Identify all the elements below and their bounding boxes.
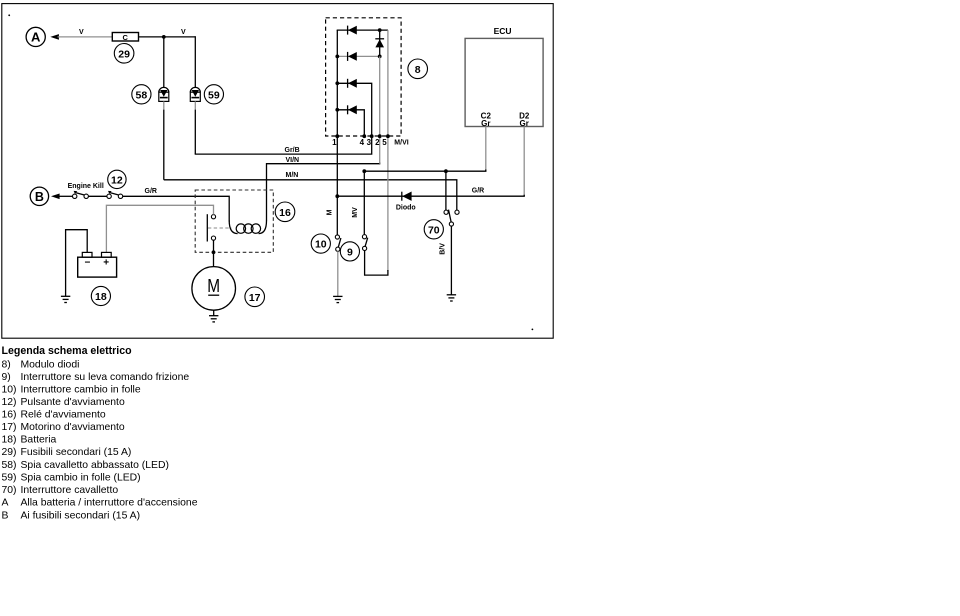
svg-text:V: V	[79, 29, 84, 36]
svg-text:B/V: B/V	[440, 243, 447, 255]
svg-text:V: V	[181, 29, 186, 36]
diode D2	[348, 52, 357, 61]
wire V: fuse to corner	[139, 36, 196, 38]
junction pin4	[362, 169, 366, 173]
wire relay output to motor	[213, 240, 215, 266]
svg-text:Modulo diodi: Modulo diodi	[21, 360, 80, 371]
switch 12 (pulsante avviamento)	[107, 191, 123, 199]
svg-text:29: 29	[118, 48, 130, 60]
relay 16: dashed box	[195, 190, 273, 252]
ref circle 70	[424, 220, 443, 239]
svg-text:Interruttore cambio in folle: Interruttore cambio in folle	[21, 385, 141, 396]
svg-text:Fusibili secondari (15 A): Fusibili secondari (15 A)	[21, 447, 132, 458]
ref circle 12	[108, 170, 126, 188]
svg-text:3: 3	[367, 138, 372, 147]
wire: module pin4 to ECU C2	[364, 170, 486, 172]
svg-text:Interruttore su leva comando f: Interruttore su leva comando frizione	[21, 372, 190, 383]
ECU box	[465, 38, 543, 126]
svg-text:+: +	[103, 258, 109, 269]
ref circle 29	[114, 44, 134, 64]
svg-text:Spia cambio in folle (LED): Spia cambio in folle (LED)	[21, 472, 141, 483]
wire switch 10 to ground (gray)	[337, 251, 339, 296]
svg-text:Gr/B: Gr/B	[285, 147, 300, 154]
svg-text:M: M	[207, 275, 220, 296]
ground (battery)	[61, 296, 70, 302]
junction bus/row3	[335, 81, 339, 85]
svg-text:58): 58)	[2, 460, 17, 471]
ground (switch 10)	[333, 296, 342, 302]
relay contact (top)	[211, 215, 215, 219]
svg-text:G/R: G/R	[472, 188, 484, 195]
wire: LED 58 down to M/N corner	[163, 110, 165, 180]
svg-text:M/N: M/N	[286, 172, 299, 179]
svg-text:−: −	[84, 257, 90, 268]
ref circle 18	[91, 286, 110, 305]
LED 58 (spia cavalletto)	[159, 87, 169, 101]
svg-text:C: C	[122, 33, 128, 42]
wire Gr/B: LED59 to module pin 3	[195, 136, 372, 154]
ref circle 8	[408, 59, 428, 79]
svg-text:8: 8	[415, 64, 421, 76]
svg-text:10): 10)	[2, 385, 17, 396]
relay contact (bottom)	[211, 236, 215, 240]
wire V: arrow A to fuse (gray)	[58, 36, 113, 38]
wire G/R: switch 12 to relay coil	[123, 196, 230, 221]
wire: pin4 rail down to clutch switch	[363, 171, 365, 234]
ref circle 10	[311, 234, 330, 253]
pin 2 internal wire (gray)	[379, 56, 381, 163]
wire battery+ to relay (gray)	[106, 205, 213, 252]
ref circle 59	[204, 85, 223, 104]
battery 18	[78, 252, 117, 277]
wire switch 70 to ground	[450, 226, 452, 295]
wire switch 9 to pin 5 rail	[365, 251, 388, 276]
schematic frame	[2, 4, 553, 339]
motor 17	[192, 267, 236, 311]
wire: V junction down to LED 58	[163, 37, 165, 88]
vertical diode wire (row1 to row2)	[379, 30, 381, 56]
wire M/N: LED58 corner to stand switch	[164, 180, 457, 211]
wire stub below LED 59 (gray)	[194, 101, 196, 109]
wire motor to ground	[213, 310, 215, 316]
ref circle 9	[340, 242, 359, 261]
terminal A	[26, 27, 59, 46]
wire: V corner down to LED 59	[194, 36, 196, 87]
svg-text:Interruttore cavalletto: Interruttore cavalletto	[21, 485, 119, 496]
wire between switches	[88, 195, 107, 197]
ref circle 58	[132, 85, 151, 104]
pin 1 dot	[335, 134, 339, 138]
svg-text:ECU: ECU	[494, 26, 512, 36]
switch 9 (leva frizione)	[362, 235, 367, 251]
module row 4 wire	[337, 110, 364, 136]
ground (switch 70)	[447, 295, 456, 301]
diode D1	[348, 26, 357, 35]
svg-text:Motorino d'avviamento: Motorino d'avviamento	[21, 422, 125, 433]
switch 10 (cambio in folle)	[335, 235, 341, 251]
svg-text:70: 70	[428, 224, 440, 236]
svg-text:9): 9)	[2, 372, 11, 383]
svg-text:Pulsante d'avviamento: Pulsante d'avviamento	[21, 397, 125, 408]
svg-text:16: 16	[279, 207, 291, 219]
relay coil	[229, 221, 266, 234]
svg-text:M: M	[327, 209, 334, 215]
svg-text:Gr: Gr	[520, 119, 529, 128]
svg-text:29): 29)	[2, 447, 17, 458]
LED 59 (spia folle)	[190, 87, 200, 101]
svg-text:2: 2	[375, 138, 380, 147]
pin 3 dot	[370, 134, 374, 138]
svg-text:17): 17)	[2, 422, 17, 433]
junction to stand switch	[444, 169, 448, 173]
fuse C (29)	[112, 33, 138, 42]
svg-text:70): 70)	[2, 485, 17, 496]
svg-text:18): 18)	[2, 435, 17, 446]
ref circle 16	[275, 202, 295, 222]
relay armature	[206, 214, 208, 241]
svg-text:VI/N: VI/N	[286, 157, 300, 164]
svg-text:1: 1	[332, 138, 337, 147]
svg-text:8): 8)	[2, 360, 11, 371]
svg-text:9: 9	[347, 247, 353, 259]
svg-text:B: B	[35, 190, 44, 204]
wire: junction down to stand switch left contact	[445, 171, 447, 210]
vertical diode (points up)	[375, 39, 384, 48]
svg-text:Gr: Gr	[481, 119, 490, 128]
svg-text:12): 12)	[2, 397, 17, 408]
diode Diodo (points left)	[402, 192, 412, 201]
svg-text:4: 4	[360, 138, 365, 147]
module row 2 wire (gray)	[337, 55, 379, 57]
svg-text:Alla batteria / interruttore d: Alla batteria / interruttore d'accension…	[21, 497, 198, 508]
wire G/R with diode: pin1 rail to ECU D2	[337, 195, 524, 196]
svg-text:59: 59	[208, 89, 220, 101]
ref circle 17	[245, 287, 265, 307]
relay mechanical link (dashed gray)	[208, 227, 232, 229]
stand switch 70	[444, 210, 459, 226]
svg-text:10: 10	[315, 239, 327, 251]
module bus (pin 1 rail)	[336, 30, 338, 136]
terminal B	[30, 187, 59, 205]
svg-text:Legenda schema elettrico: Legenda schema elettrico	[2, 345, 133, 357]
junction bus/row2	[335, 55, 339, 59]
svg-text:Engine Kill: Engine Kill	[68, 183, 104, 190]
wire: LED 59 down to Gr/B corner	[194, 110, 196, 155]
junction row2/pin2	[378, 55, 382, 59]
svg-text:A: A	[2, 497, 9, 508]
wire stub below LED 58 (gray)	[163, 101, 165, 109]
legend	[2, 345, 198, 521]
ground (motor)	[209, 316, 218, 322]
wire: B arrow to engine kill switch	[58, 195, 72, 197]
svg-text:B: B	[2, 511, 9, 522]
svg-text:12: 12	[111, 175, 123, 187]
wire C2 (gray)	[485, 127, 487, 172]
diode D4	[348, 105, 357, 114]
svg-text:58: 58	[136, 89, 148, 101]
wire battery- to ground	[66, 230, 88, 296]
svg-text:Spia cavalletto abbassato (LED: Spia cavalletto abbassato (LED)	[21, 460, 169, 471]
junction pin1 rail / G-R	[335, 194, 339, 198]
junction on V wire	[162, 35, 166, 39]
svg-text:G/R: G/R	[145, 188, 157, 195]
svg-text:Diodo: Diodo	[396, 204, 416, 211]
pin 4 dot	[362, 134, 366, 138]
pin 5 dot	[386, 134, 390, 138]
svg-text:16): 16)	[2, 410, 17, 421]
svg-text:M/VI: M/VI	[394, 140, 408, 147]
wire: pin1 rail down to neutral switch	[336, 136, 338, 234]
svg-text:Batteria: Batteria	[21, 435, 57, 446]
svg-text:Relé d'avviamento: Relé d'avviamento	[21, 410, 106, 421]
junction on relay box edge	[212, 250, 216, 254]
svg-text:MV: MV	[352, 207, 359, 218]
wire D2 (gray)	[523, 127, 525, 197]
svg-text:18: 18	[95, 291, 107, 303]
svg-text:Ai fusibili secondari (15 A): Ai fusibili secondari (15 A)	[21, 511, 141, 522]
diode module 8: dashed box	[326, 18, 402, 136]
module row 1 wire	[337, 29, 388, 31]
junction row1 / pin2 branch	[378, 28, 382, 32]
svg-text:5: 5	[382, 138, 387, 147]
diode D3	[348, 79, 357, 88]
svg-text:17: 17	[249, 292, 261, 304]
svg-text:A: A	[31, 30, 41, 45]
junction bus/row4	[335, 108, 339, 112]
switch Engine Kill	[73, 191, 89, 199]
module row 3 wire	[337, 83, 371, 136]
wire VI/N: relay coil to module pin 2	[267, 162, 380, 220]
pin 5 internal wire (gray)	[387, 30, 389, 271]
pin 2 dot	[378, 134, 382, 138]
svg-text:59): 59)	[2, 472, 17, 483]
